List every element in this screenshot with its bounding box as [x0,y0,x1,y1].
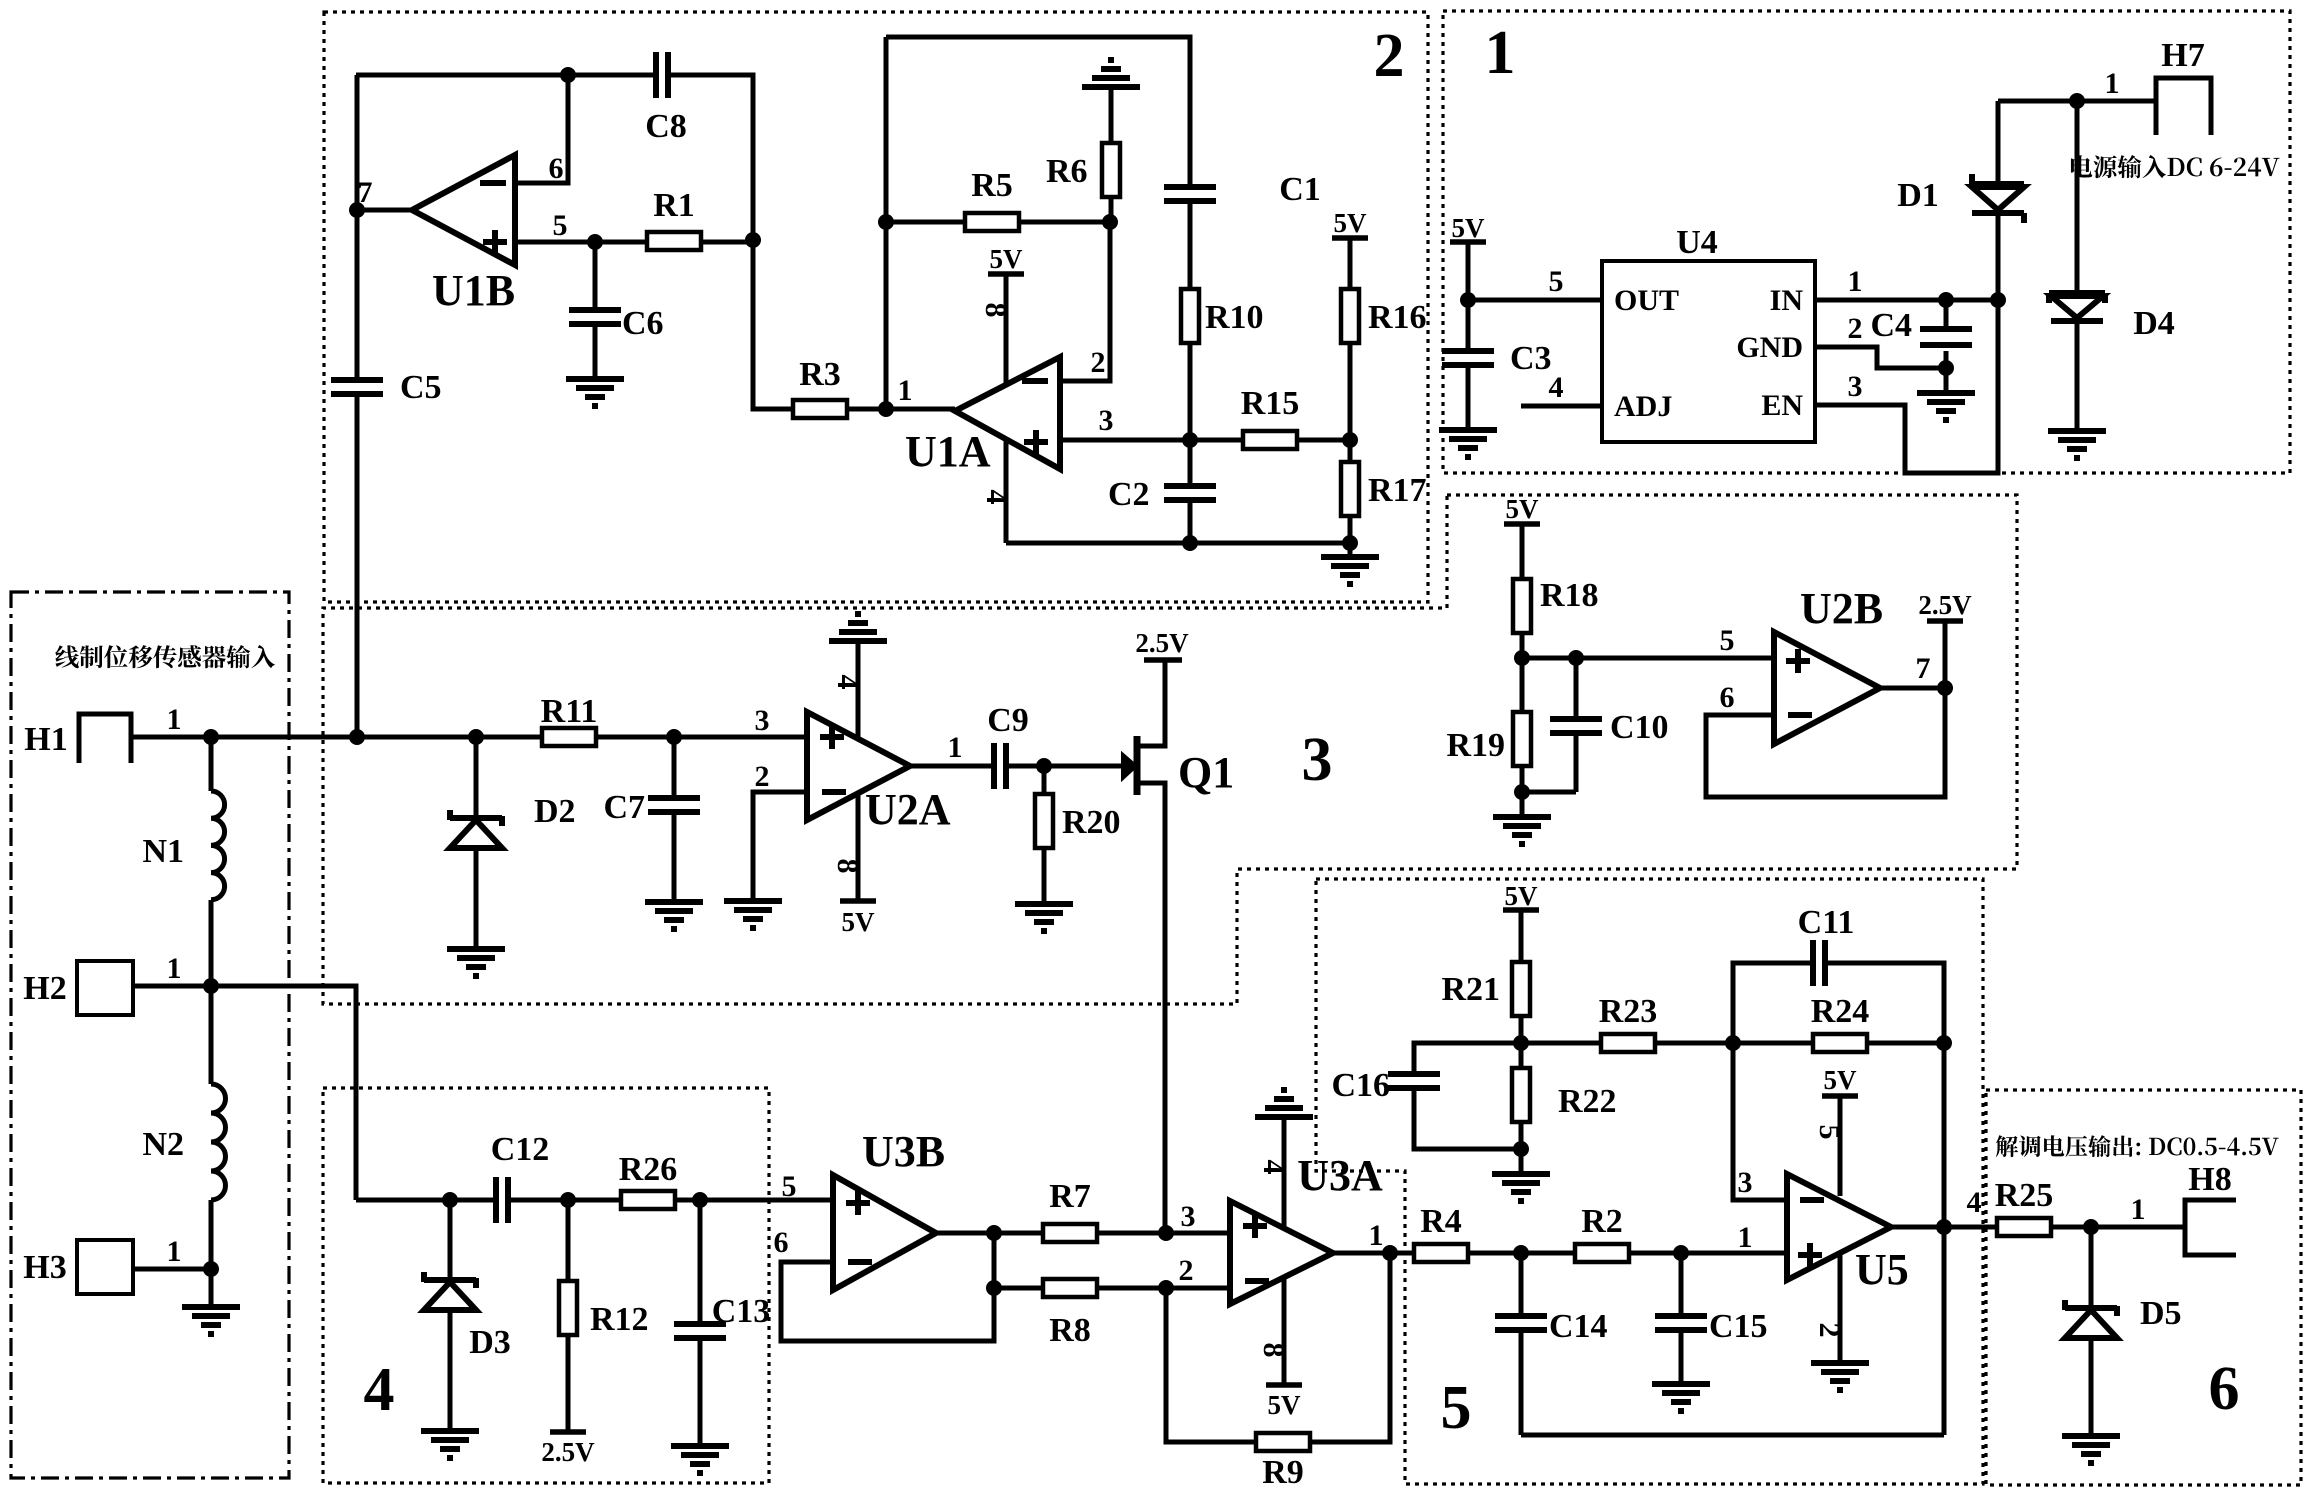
svg-text:5V: 5V [990,244,1024,274]
svg-text:4: 4 [1549,371,1564,404]
svg-text:R22: R22 [1558,1083,1617,1120]
svg-text:D5: D5 [2140,1295,2182,1332]
svg-text:C11: C11 [1798,904,1855,941]
svg-text:C15: C15 [1709,1308,1768,1345]
svg-text:5: 5 [1441,1374,1472,1442]
svg-text:R11: R11 [541,693,598,730]
svg-text:D3: D3 [469,1324,511,1361]
svg-text:U1B: U1B [432,266,515,315]
svg-text:8: 8 [1257,1343,1290,1358]
svg-text:3: 3 [1099,404,1114,437]
svg-text:N1: N1 [142,833,184,870]
svg-text:1: 1 [1485,19,1516,87]
svg-text:U2A: U2A [865,785,951,834]
svg-text:8: 8 [831,859,864,874]
svg-text:3: 3 [755,704,770,737]
svg-text:2: 2 [755,760,770,793]
svg-text:2.5V: 2.5V [1135,628,1189,658]
svg-text:U1A: U1A [905,427,991,476]
svg-text:IN: IN [1770,284,1804,317]
svg-text:5: 5 [1813,1125,1846,1140]
svg-text:R23: R23 [1599,993,1658,1030]
svg-text:C1: C1 [1279,171,1321,208]
svg-text:C10: C10 [1610,709,1669,746]
svg-text:R10: R10 [1205,299,1264,336]
svg-text:5V: 5V [1506,494,1540,524]
svg-text:1: 1 [898,374,913,407]
svg-text:EN: EN [1761,389,1803,422]
svg-text:ADJ: ADJ [1614,390,1672,423]
svg-text:D2: D2 [534,793,576,830]
svg-text:R26: R26 [619,1151,678,1188]
svg-text:R21: R21 [1441,971,1500,1008]
svg-text:H8: H8 [2188,1161,2231,1198]
svg-text:R24: R24 [1811,993,1870,1030]
svg-text:C6: C6 [622,305,664,342]
svg-text:1: 1 [1738,1221,1753,1254]
svg-text:1: 1 [167,1235,182,1268]
svg-text:6: 6 [2209,1355,2240,1423]
svg-text:5V: 5V [1452,213,1486,243]
svg-text:1: 1 [167,952,182,985]
svg-text:C13: C13 [712,1293,771,1330]
svg-text:1: 1 [1848,265,1863,298]
svg-text:1: 1 [2131,1193,2146,1226]
svg-text:8: 8 [979,303,1012,318]
svg-text:R6: R6 [1046,153,1088,190]
svg-text:R8: R8 [1049,1312,1091,1349]
svg-text:C4: C4 [1870,307,1912,344]
svg-text:4: 4 [980,490,1013,505]
svg-text:3: 3 [1848,370,1863,403]
svg-text:2: 2 [1179,1254,1194,1287]
svg-text:C7: C7 [603,789,645,826]
svg-text:3: 3 [1302,726,1333,794]
svg-text:R12: R12 [590,1301,649,1338]
svg-text:R19: R19 [1446,727,1505,764]
svg-text:Q1: Q1 [1178,748,1234,797]
svg-text:5: 5 [553,209,568,242]
svg-text:1: 1 [1369,1219,1384,1252]
svg-text:5V: 5V [1505,881,1539,911]
svg-text:3: 3 [1738,1166,1753,1199]
svg-text:4: 4 [364,1356,395,1424]
svg-text:H2: H2 [23,970,66,1007]
svg-text:R5: R5 [971,167,1013,204]
svg-text:2: 2 [1848,312,1863,345]
svg-text:6: 6 [1720,681,1735,714]
svg-text:H1: H1 [24,721,67,758]
svg-text:4: 4 [831,675,864,690]
svg-text:R4: R4 [1420,1203,1462,1240]
svg-text:U5: U5 [1855,1245,1909,1294]
svg-text:1: 1 [167,703,182,736]
svg-text:4: 4 [1257,1160,1290,1175]
svg-text:R18: R18 [1540,577,1599,614]
svg-text:R3: R3 [799,356,841,393]
svg-text:7: 7 [1916,652,1931,685]
svg-text:U2B: U2B [1800,584,1883,633]
svg-text:N2: N2 [142,1126,184,1163]
svg-text:R2: R2 [1581,1203,1623,1240]
svg-text:6: 6 [549,152,564,185]
svg-text:U3A: U3A [1297,1151,1383,1200]
svg-text:U4: U4 [1676,224,1718,261]
svg-text:5V: 5V [1824,1065,1858,1095]
svg-text:2: 2 [1813,1323,1846,1338]
svg-text:6: 6 [774,1226,789,1259]
svg-text:H7: H7 [2161,37,2204,74]
svg-text:D1: D1 [1897,177,1939,214]
svg-text:C14: C14 [1549,1308,1608,1345]
svg-text:5: 5 [782,1170,797,1203]
svg-text:2.5V: 2.5V [1918,590,1972,620]
svg-text:U3B: U3B [862,1127,945,1176]
svg-text:OUT: OUT [1614,284,1679,317]
svg-text:2.5V: 2.5V [541,1437,595,1467]
svg-text:5V: 5V [1334,208,1368,238]
svg-text:GND: GND [1736,331,1803,364]
svg-text:C3: C3 [1510,340,1552,377]
svg-text:3: 3 [1181,1200,1196,1233]
svg-text:R20: R20 [1062,804,1121,841]
svg-text:C12: C12 [491,1131,550,1168]
svg-text:5V: 5V [842,907,876,937]
svg-text:2: 2 [1374,22,1405,90]
svg-text:R1: R1 [653,187,695,224]
svg-text:D4: D4 [2133,305,2175,342]
svg-text:5: 5 [1549,265,1564,298]
svg-text:1: 1 [2105,67,2120,100]
svg-text:R16: R16 [1368,299,1427,336]
svg-text:C5: C5 [400,369,442,406]
svg-text:R17: R17 [1368,472,1427,509]
svg-text:C16: C16 [1331,1067,1390,1104]
svg-text:5V: 5V [1268,1390,1302,1420]
svg-text:C2: C2 [1108,476,1150,513]
svg-text:R15: R15 [1241,385,1300,422]
svg-text:C8: C8 [645,108,687,145]
svg-text:R7: R7 [1049,1178,1091,1215]
svg-text:2: 2 [1091,346,1106,379]
svg-text:H3: H3 [23,1249,66,1286]
svg-text:7: 7 [358,176,373,209]
svg-text:1: 1 [948,731,963,764]
svg-text:5: 5 [1720,624,1735,657]
svg-text:R25: R25 [1995,1177,2054,1214]
svg-text:R9: R9 [1262,1454,1304,1491]
svg-text:C9: C9 [987,702,1029,739]
svg-text:4: 4 [1967,1186,1982,1219]
